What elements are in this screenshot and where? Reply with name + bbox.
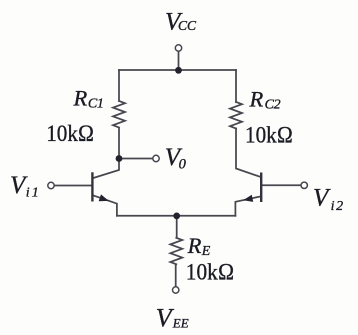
transistor Q2 base bar [260,173,262,203]
resistor RC1 [113,101,125,128]
wire Q2 base lead [262,184,301,186]
svg-text:10kΩ: 10kΩ [245,123,293,149]
svg-text:i1: i1 [26,186,39,201]
junction node V0 [116,155,123,162]
svg-text:C2: C2 [265,97,281,112]
svg-text:0: 0 [179,156,187,172]
terminal Vi1 [48,182,54,188]
wire Q1 base lead [55,185,92,187]
resistor RE [170,238,182,264]
wire RC2 to Q2 collector [236,129,260,177]
wire left branch upper [118,70,120,101]
wire RE top [176,216,178,238]
wire right branch upper [235,70,237,102]
terminal VEE [173,287,179,293]
wire VCC stub [178,52,180,71]
wire Q1 collector [93,159,119,179]
svg-text:10kΩ: 10kΩ [46,121,94,147]
wire RC1 to V0 node [118,129,120,159]
transistor Q2 emitter arrow [242,195,253,204]
wire Q1 emitter [93,196,117,216]
terminal Vi2 [301,182,307,188]
svg-text:EE: EE [172,315,189,330]
junction node RE [173,213,180,220]
svg-text:10kΩ: 10kΩ [186,259,235,285]
wire V0 tap [119,158,153,160]
svg-text:CC: CC [178,18,197,33]
wire top rail [119,69,236,71]
transistor Q1 base bar [91,172,93,201]
junction node VCC [175,67,182,74]
terminal VCC [175,45,181,51]
resistor RC2 [230,102,242,129]
svg-text:i2: i2 [331,199,344,214]
svg-text:E: E [201,244,211,259]
wire Q2 emitter [235,197,260,216]
svg-text:V: V [313,185,331,212]
transistor Q1 emitter arrow [99,194,110,204]
terminal V0 [153,155,159,161]
svg-text:R: R [73,86,88,111]
svg-text:R: R [249,86,264,111]
wire bottom rail [117,215,235,217]
svg-text:R: R [187,233,202,258]
wire RE bottom [175,265,177,287]
svg-text:C1: C1 [88,96,104,111]
